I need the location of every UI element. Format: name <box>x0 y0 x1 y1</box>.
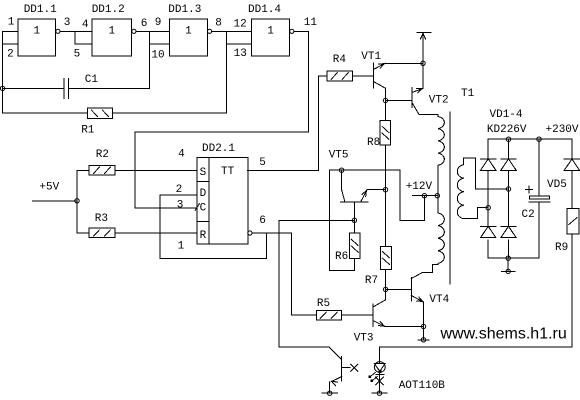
svg-text:C2: C2 <box>522 209 535 221</box>
svg-text:R3: R3 <box>95 213 108 225</box>
svg-text:DD1.2: DD1.2 <box>92 4 125 16</box>
svg-text:R8: R8 <box>367 137 380 149</box>
svg-text:DD1.3: DD1.3 <box>168 4 201 16</box>
svg-text:VT4: VT4 <box>429 294 449 306</box>
svg-text:+12V: +12V <box>406 181 433 193</box>
svg-text:VD5: VD5 <box>547 179 567 191</box>
svg-text:VT2: VT2 <box>429 95 449 107</box>
svg-text:R: R <box>200 230 207 242</box>
svg-text:R5: R5 <box>317 298 330 310</box>
svg-text:R2: R2 <box>96 149 109 161</box>
svg-text:R9: R9 <box>555 242 568 254</box>
svg-text:3: 3 <box>177 199 184 211</box>
svg-text:T1: T1 <box>461 88 475 100</box>
svg-text:5: 5 <box>259 157 266 169</box>
svg-text:9: 9 <box>155 17 162 29</box>
svg-text:S: S <box>200 167 207 179</box>
svg-text:1: 1 <box>178 240 185 252</box>
svg-text:VT3: VT3 <box>354 332 374 344</box>
svg-text:www.shems.h1.ru: www.shems.h1.ru <box>440 326 567 343</box>
svg-text:DD1.4: DD1.4 <box>248 4 281 16</box>
svg-text:D: D <box>200 188 207 200</box>
svg-text:8: 8 <box>215 18 222 30</box>
svg-text:R6: R6 <box>335 251 348 263</box>
svg-text:6: 6 <box>259 215 266 227</box>
svg-text:R1: R1 <box>81 124 95 136</box>
svg-text:5: 5 <box>74 48 81 60</box>
svg-text:R4: R4 <box>333 54 347 66</box>
svg-text:DD2.1: DD2.1 <box>202 143 235 155</box>
svg-text:1: 1 <box>8 16 15 28</box>
svg-text:KD226V: KD226V <box>487 124 527 136</box>
svg-text:10: 10 <box>151 49 164 61</box>
svg-text:VD1-4: VD1-4 <box>490 109 523 121</box>
svg-text:1: 1 <box>185 26 192 38</box>
svg-text:DD1.1: DD1.1 <box>24 4 57 16</box>
svg-text:2: 2 <box>176 184 183 196</box>
svg-text:VT1: VT1 <box>361 51 381 63</box>
svg-text:3: 3 <box>64 17 71 29</box>
svg-text:1: 1 <box>108 26 115 38</box>
svg-text:C: C <box>200 202 207 214</box>
svg-text:4: 4 <box>178 149 185 161</box>
svg-text:13: 13 <box>234 48 247 60</box>
svg-text:TT: TT <box>221 166 235 178</box>
svg-text:C1: C1 <box>85 74 99 86</box>
svg-text:VT5: VT5 <box>329 150 349 162</box>
svg-text:1: 1 <box>33 26 40 38</box>
svg-text:4: 4 <box>82 19 89 31</box>
svg-text:1: 1 <box>267 26 274 38</box>
svg-text:+230V: +230V <box>546 124 579 136</box>
svg-text:+5V: +5V <box>39 182 59 194</box>
svg-text:R7: R7 <box>365 275 378 287</box>
svg-text:11: 11 <box>304 17 318 29</box>
svg-text:AOT110B: AOT110B <box>399 380 446 392</box>
svg-text:2: 2 <box>7 48 14 60</box>
svg-text:12: 12 <box>234 19 247 31</box>
svg-text:6: 6 <box>141 18 148 30</box>
